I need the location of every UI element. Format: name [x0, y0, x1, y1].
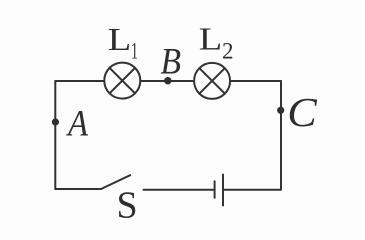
wire: segment between L1 and L2 [141, 80, 194, 82]
lamp L1 circle [104, 63, 140, 99]
battery negative plate (short) [214, 181, 216, 198]
wire: right vertical [280, 81, 282, 189]
svg-text:C: C [287, 89, 317, 135]
wire: switch contact to battery [144, 189, 214, 191]
svg-text:S: S [117, 185, 138, 227]
battery positive plate (long) [222, 175, 224, 206]
svg-text:L: L [108, 21, 132, 57]
wire: left vertical [54, 81, 56, 189]
svg-text:L: L [199, 20, 223, 56]
lamp L2 cross [199, 68, 224, 93]
lamp L1 cross [110, 68, 135, 93]
node B junction dot [164, 77, 171, 84]
wire: battery to bottom right corner [224, 189, 281, 191]
lamp L2 circle [194, 63, 230, 99]
node C junction dot [277, 107, 284, 114]
switch S blade (open) [101, 175, 130, 189]
wire: top left segment [55, 80, 104, 82]
wire: top right segment [231, 80, 281, 82]
svg-text:A: A [65, 104, 88, 145]
svg-text:1: 1 [131, 39, 138, 64]
wire: bottom left to switch pivot [55, 188, 101, 190]
svg-text:2: 2 [222, 39, 234, 64]
svg-text:B: B [161, 42, 182, 83]
node A junction dot [52, 118, 59, 125]
